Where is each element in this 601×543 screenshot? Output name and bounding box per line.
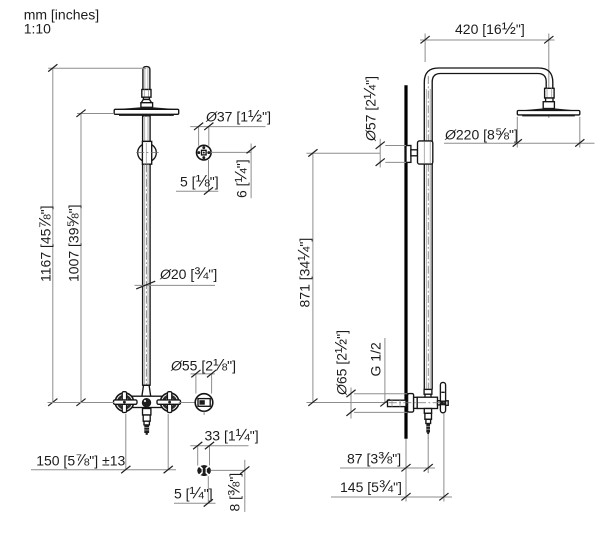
wall elbow flange detail (&#216;37) <box>197 145 212 160</box>
outlet flange detail (&#216;55) <box>179 394 213 415</box>
svg-text:1007 [39⅝"]: 1007 [39⅝"] <box>64 205 83 283</box>
knurled hose tip (side) <box>426 424 430 435</box>
shower head hub (side) <box>543 102 554 109</box>
label G 1/2 <box>368 338 390 406</box>
upper pipe (front) <box>143 116 151 141</box>
shower head (front) <box>114 107 179 116</box>
right cross handle <box>157 392 181 413</box>
svg-text:Ø55 [2⅛"]: Ø55 [2⅛"] <box>170 356 236 375</box>
svg-text:8 [⅜"]: 8 [⅜"] <box>225 473 244 512</box>
dim 5 1/8 <box>176 160 219 195</box>
dim 5 1/4 <box>174 476 216 506</box>
riser pipe (front) <box>143 164 151 385</box>
valve escutcheon (side) <box>408 394 414 413</box>
dim &#216;65 <box>332 330 408 419</box>
left cross handle <box>114 392 138 413</box>
top connector nut <box>141 90 151 103</box>
dim 33 <box>190 426 258 466</box>
svg-text:150 [5⅞"] ±13: 150 [5⅞"] ±13 <box>36 451 125 470</box>
valve handle (side) <box>440 382 448 412</box>
arm connector nut <box>545 88 555 101</box>
svg-text:5 [¼"]: 5 [¼"] <box>174 484 213 503</box>
svg-text:Ø37 [1½"]: Ø37 [1½"] <box>205 107 271 126</box>
svg-text:Ø220 [8⅝"]: Ø220 [8⅝"] <box>444 125 518 144</box>
pipe centerline (front) <box>145 67 147 435</box>
svg-text:1:10: 1:10 <box>24 21 51 37</box>
mixer body <box>133 396 162 407</box>
valve outlet (side) <box>424 409 431 424</box>
svg-text:420 [16½"]: 420 [16½"] <box>455 19 525 38</box>
svg-text:1167 [45⅞"]: 1167 [45⅞"] <box>36 206 55 282</box>
dim &#216;220 <box>444 117 595 148</box>
wall line <box>404 85 407 439</box>
svg-text:87 [3⅜"]: 87 [3⅜"] <box>347 449 401 468</box>
valve centerline (side) <box>389 402 448 404</box>
top pipe tip <box>143 67 150 90</box>
dim &#216;20 leader <box>135 264 218 289</box>
svg-text:871 [34¼"]: 871 [34¼"] <box>295 238 314 308</box>
dim 145 <box>331 413 452 502</box>
dim 420 <box>420 19 555 118</box>
svg-text:G 1/2: G 1/2 <box>368 342 384 376</box>
dim 1167 <box>36 64 147 406</box>
ball joint (front) <box>136 141 158 164</box>
dim 87 <box>340 435 435 474</box>
svg-text:5 [⅛"]: 5 [⅛"] <box>180 172 219 191</box>
mixer baseline extension <box>48 402 115 404</box>
mixer center hub <box>142 398 151 407</box>
dim 150 &#177;13 <box>31 414 176 473</box>
shower head hub (front) <box>141 103 153 108</box>
G1/2 nipple <box>388 400 407 406</box>
svg-text:33 [1¼"]: 33 [1¼"] <box>205 426 259 445</box>
adapter cone above mixer <box>142 385 151 396</box>
knurled hose tip (front) <box>144 425 149 435</box>
dim 8 3/8 <box>211 460 250 512</box>
svg-text:Ø57 [2¼"]: Ø57 [2¼"] <box>361 76 380 142</box>
hand shower connector detail (front) <box>197 465 211 476</box>
svg-text:Ø20 [¾"]: Ø20 [¾"] <box>159 264 217 283</box>
riser pipe (side) <box>424 76 432 440</box>
shower head (side) <box>517 108 580 116</box>
wall bracket (side) <box>406 141 433 164</box>
valve body (side) <box>414 389 441 408</box>
shower arm <box>424 68 553 89</box>
outlet nipple (front) <box>143 409 151 425</box>
dim &#216;37 <box>190 107 271 146</box>
svg-text:6 [¼"]: 6 [¼"] <box>232 159 251 198</box>
dim 1007 <box>64 110 115 406</box>
dim &#216;55 <box>170 356 236 394</box>
svg-text:Ø65 [2½"]: Ø65 [2½"] <box>332 330 351 396</box>
dim 6 1/4 <box>211 144 256 199</box>
scale note <box>24 7 99 37</box>
dim &#216;57 <box>361 76 407 168</box>
svg-text:145 [5¾"]: 145 [5¾"] <box>340 477 402 496</box>
dim 871 <box>295 149 389 406</box>
